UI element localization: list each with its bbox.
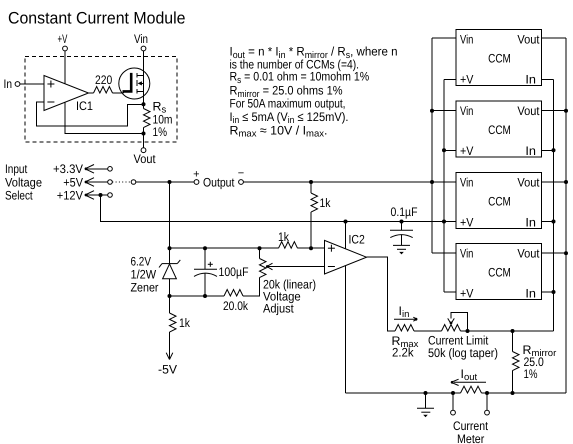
svg-text:100µF: 100µF	[219, 265, 249, 279]
svg-text:+V: +V	[460, 144, 474, 158]
node 100uF bottom	[203, 294, 207, 298]
wire +V rail	[443, 80, 445, 292]
node In rail CCM2	[552, 148, 556, 152]
wire +12V supply rail	[101, 195, 457, 222]
svg-text:Iout​: Iout​	[461, 367, 478, 383]
node +V rail CCM3	[442, 220, 446, 224]
svg-text:Input: Input	[5, 162, 28, 176]
wire CCM4 In pin	[542, 291, 554, 293]
node Vin rail CCM2	[430, 109, 434, 113]
CCM module 4	[456, 244, 542, 301]
svg-text:50k (log taper): 50k (log taper)	[428, 346, 498, 360]
node pot top	[258, 246, 262, 250]
svg-text:1k: 1k	[320, 196, 332, 210]
node Output+ rail junction	[168, 180, 172, 184]
svg-text:IC1: IC1	[76, 99, 93, 113]
wire 220 to Q1 gate	[113, 92, 124, 94]
potentiometer 20k (linear) Voltage Adjust	[260, 248, 317, 315]
capacitor C2 0.1uF	[390, 205, 418, 245]
resistor 20.0k	[223, 290, 249, 314]
node Vin terminal	[134, 32, 148, 51]
svg-text:Current: Current	[453, 419, 488, 433]
svg-text:In: In	[4, 77, 13, 91]
node zener top	[168, 246, 172, 250]
wire return rail bottom	[346, 392, 461, 394]
node IC2 + input junction	[309, 246, 313, 250]
svg-text:Output: Output	[203, 176, 235, 190]
op-amp IC1	[44, 76, 93, 114]
node Output + terminal	[193, 168, 199, 184]
svg-text:-5V: -5V	[158, 363, 178, 377]
wire IC2 V- pin down to return rail	[345, 266, 347, 393]
power -5V arrow	[158, 353, 178, 377]
svg-text:Voltage: Voltage	[5, 175, 42, 189]
svg-text:In: In	[525, 287, 536, 301]
svg-text:In: In	[525, 216, 536, 230]
node +3.3V select	[53, 162, 112, 176]
node +V terminal	[58, 32, 68, 51]
wire Vout rail	[565, 38, 567, 393]
node Q1 source / Rs top junction	[142, 102, 146, 106]
wire Rmax to Current Limit pot	[414, 330, 442, 332]
label Input Voltage Select	[5, 162, 42, 202]
svg-text:−: −	[238, 168, 244, 180]
svg-text:Select: Select	[5, 188, 33, 202]
wire IC2 V+ pin	[345, 222, 347, 250]
CCM module 1	[456, 30, 542, 87]
node Vout rail CCM4	[564, 251, 568, 255]
wire Output+ down to reference row	[169, 182, 171, 248]
node 100uF top	[203, 246, 207, 250]
node +12V select	[57, 188, 112, 202]
wire jumper plug to Output+	[136, 181, 194, 183]
wire 1k to IC2 + input	[298, 247, 325, 249]
node Vin rail junction row A	[430, 180, 434, 184]
node Rs bottom junction	[142, 132, 146, 136]
wire CCM3 In pin	[542, 221, 554, 223]
CCM module 2	[456, 101, 542, 158]
svg-text:CCM: CCM	[488, 194, 511, 208]
node In rail CCM3	[552, 220, 556, 224]
svg-text:20.0k: 20.0k	[223, 299, 249, 313]
wire Output- to CCM3 Vin	[243, 181, 456, 183]
CCM module 3	[456, 172, 542, 229]
wire CCM1 In pin	[542, 79, 554, 81]
svg-text:Meter: Meter	[457, 432, 484, 444]
resistor Rmax 2.2k	[392, 325, 419, 360]
svg-text:Vout: Vout	[134, 152, 156, 166]
svg-text:CCM: CCM	[488, 52, 511, 66]
resistor 1k (row C)	[278, 230, 298, 248]
wire feedback Rs top to IC1 - input	[37, 102, 142, 126]
svg-text:Rmax​ ≈ 10V / Imax​.: Rmax​ ≈ 10V / Imax​.	[230, 123, 328, 139]
svg-text:+5V: +5V	[63, 175, 83, 189]
wire CCM4 +V pin	[444, 291, 456, 293]
wire CCM2 In pin	[542, 149, 554, 151]
wire pot to In rail	[461, 330, 554, 332]
svg-text:Constant Current Module: Constant Current Module	[8, 9, 186, 28]
svg-text:For 50A maximum output,: For 50A maximum output,	[230, 96, 346, 110]
wire IC2 output	[367, 257, 396, 331]
transistor Q1 (MOSFET)	[119, 68, 150, 99]
node zener bottom	[168, 294, 172, 298]
resistor 1k (Output- to IC2 +)	[311, 182, 331, 248]
current meter terminals	[451, 393, 490, 444]
svg-text:+V: +V	[460, 73, 474, 87]
svg-text:6.2V: 6.2V	[131, 254, 152, 268]
node IC2 V+ junction	[344, 220, 348, 224]
svg-text:220: 220	[95, 73, 112, 87]
resistor 1k (to -5V)	[170, 296, 191, 359]
svg-text:Vout: Vout	[517, 104, 540, 118]
svg-text:+: +	[193, 168, 199, 180]
capacitor C1 100uF	[194, 248, 249, 296]
wire +5V jumper (dotted)	[112, 181, 131, 183]
node In rail CCM4	[552, 290, 556, 294]
resistor 220	[94, 73, 113, 93]
wire In rail	[553, 80, 555, 331]
wire Rs bottom to Vout terminal	[143, 134, 145, 148]
svg-text:Adjust: Adjust	[263, 302, 294, 316]
svg-text:In: In	[525, 144, 536, 158]
wire CCM4 Vin pin	[432, 252, 456, 254]
resistor Rs 10m 1%	[144, 100, 173, 140]
module boundary (dashed box)	[25, 57, 177, 143]
wire CCM3 Vin pin	[432, 181, 456, 183]
wire reference row C	[170, 247, 279, 249]
svg-text:1%: 1%	[153, 125, 168, 139]
wire CCM1 Vout pin	[542, 37, 567, 39]
node 0.1uF junction	[400, 220, 404, 224]
svg-text:2.2k: 2.2k	[392, 346, 414, 360]
wire In to IC1 + input	[20, 83, 44, 85]
svg-text:+V: +V	[58, 32, 68, 46]
svg-text:+3.3V: +3.3V	[53, 162, 84, 176]
wire CCM4 Vout pin	[542, 252, 567, 254]
wire IC1 output	[89, 92, 94, 94]
svg-text:Vout: Vout	[517, 247, 540, 261]
wire CCM1 +V pin	[444, 79, 456, 81]
wire IC1 V- pin to Rs bottom node	[65, 102, 142, 134]
svg-text:CCM: CCM	[488, 266, 511, 280]
node Rmirror bottom	[511, 391, 515, 395]
node meter - junction	[485, 391, 489, 395]
svg-text:Vin: Vin	[460, 247, 473, 261]
svg-text:0.1µF: 0.1µF	[391, 205, 418, 219]
node wiper junction	[466, 329, 470, 333]
svg-text:Vin: Vin	[460, 104, 473, 118]
svg-text:IC2: IC2	[349, 233, 365, 247]
node meter + junction	[451, 391, 455, 395]
potentiometer Current Limit 50k (log taper)	[428, 312, 498, 360]
svg-text:CCM: CCM	[488, 123, 511, 137]
svg-text:Vin: Vin	[134, 32, 148, 46]
svg-text:+V: +V	[460, 216, 474, 230]
wire CCM2 Vout pin	[542, 110, 567, 112]
wire Vin rail	[431, 38, 433, 253]
node jumper plug	[131, 180, 136, 185]
node Vout rail CCM2	[564, 109, 568, 113]
wire 20.0k to pot bottom	[243, 278, 260, 297]
node +12V junction	[99, 193, 103, 197]
ground (0.1uF)	[393, 245, 410, 254]
svg-text:Vout: Vout	[517, 33, 540, 47]
svg-text:In: In	[525, 73, 536, 87]
node ground junction	[424, 391, 428, 395]
wire CCM2 Vin pin	[432, 110, 456, 112]
svg-text:Vin: Vin	[460, 176, 473, 190]
node Vout rail CCM3	[564, 180, 568, 184]
svg-text:Vout: Vout	[517, 176, 540, 190]
node In terminal	[4, 77, 20, 91]
node Output - terminal	[238, 168, 244, 185]
svg-text:+12V: +12V	[57, 188, 84, 202]
label Iin current arrow	[394, 304, 417, 321]
resistor meter shunt	[461, 386, 482, 393]
node +V rail CCM2	[442, 148, 446, 152]
wire CCM3 Vout pin	[542, 181, 567, 183]
svg-text:+V: +V	[460, 287, 474, 301]
node 1k top junction	[309, 180, 313, 184]
zener D1 6.2V	[131, 248, 181, 296]
node Rmirror top	[511, 329, 515, 333]
ground (return rail)	[417, 393, 434, 417]
svg-text:1%: 1%	[524, 367, 538, 381]
svg-text:1k: 1k	[179, 316, 191, 330]
svg-text:1/2W: 1/2W	[131, 267, 157, 281]
wire pot wiper to IC2 - input	[267, 266, 325, 268]
wire +V to IC1 V+ pin	[64, 51, 66, 84]
wire row D zener bottom to 20.0k	[170, 295, 225, 297]
resistor Rmirror 25.0 1%	[513, 331, 557, 393]
wire CCM3 +V pin	[444, 221, 456, 223]
note equations	[230, 45, 398, 140]
wire CCM2 +V pin	[444, 149, 456, 151]
svg-text:Zener: Zener	[131, 280, 159, 294]
node Vout terminal	[134, 148, 156, 166]
wire Vin to Q1 drain	[143, 51, 145, 104]
svg-text:Vin: Vin	[460, 33, 473, 47]
op-amp IC2	[325, 233, 367, 275]
node +5V select	[63, 175, 112, 189]
label Iout current arrow	[451, 367, 486, 386]
svg-text:Iin​: Iin​	[399, 304, 410, 320]
wire CCM1 Vin pin	[432, 37, 456, 39]
